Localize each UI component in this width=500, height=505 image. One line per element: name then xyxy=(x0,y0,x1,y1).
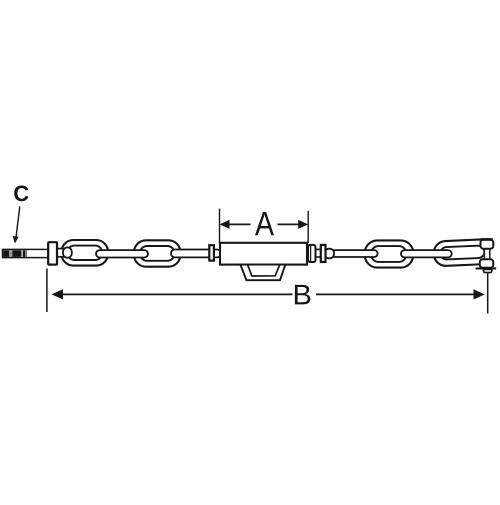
clevis pin head cap xyxy=(480,238,492,241)
dimension A arrow line right segment xyxy=(278,223,303,225)
chain link L3 xyxy=(365,240,413,267)
toggle plate xyxy=(48,242,57,264)
dimension B arrow line right segment xyxy=(316,293,478,295)
knob on edge-on link at washer xyxy=(325,249,335,259)
edge-on link between L3 and L4 xyxy=(401,250,452,257)
dimension A left arrowhead xyxy=(220,220,230,229)
rod from L2 into binder body xyxy=(171,250,221,258)
dimension B arrow line left segment xyxy=(58,293,293,295)
thread pattern xyxy=(3,250,26,257)
chain link L2 xyxy=(134,240,180,266)
chain link L1 xyxy=(62,240,109,266)
dimension A right arrowhead xyxy=(298,220,308,229)
dimension A extension line right xyxy=(307,211,309,243)
dimension B right arrowhead xyxy=(474,289,485,299)
dimension B extension line left xyxy=(46,269,48,313)
dimension B left arrowhead xyxy=(52,289,64,299)
label B xyxy=(295,285,311,305)
cotter bar xyxy=(476,267,497,269)
body bracket (outer trapezoid) xyxy=(240,265,285,281)
dimension A arrow line left segment xyxy=(226,223,251,225)
label A xyxy=(255,212,274,235)
chain link L4 (tilted, end under clevis) xyxy=(433,239,491,266)
toggle stud stem xyxy=(54,249,66,257)
clevis top lobe xyxy=(481,240,494,249)
toggle stud knob xyxy=(63,247,72,257)
washer left of body xyxy=(209,245,214,260)
clevis pin (white fill + side lines) xyxy=(484,247,496,262)
clevis bottom lobe xyxy=(480,259,494,268)
nut right of body xyxy=(308,245,316,262)
rod right of body xyxy=(306,249,327,257)
body bracket (inner trapezoid) xyxy=(248,265,280,276)
dimension B extension line right xyxy=(487,274,489,314)
label C leader arrow xyxy=(16,207,20,238)
binder body xyxy=(220,243,307,265)
washer right xyxy=(321,245,326,262)
threaded rod (item C) xyxy=(3,249,49,257)
label C xyxy=(14,186,28,202)
cotter tab xyxy=(483,270,491,273)
edge-on link between washer and L3 xyxy=(327,250,378,257)
edge-on link between L1 and L2 xyxy=(96,250,148,257)
dimension A extension line left xyxy=(219,209,221,243)
